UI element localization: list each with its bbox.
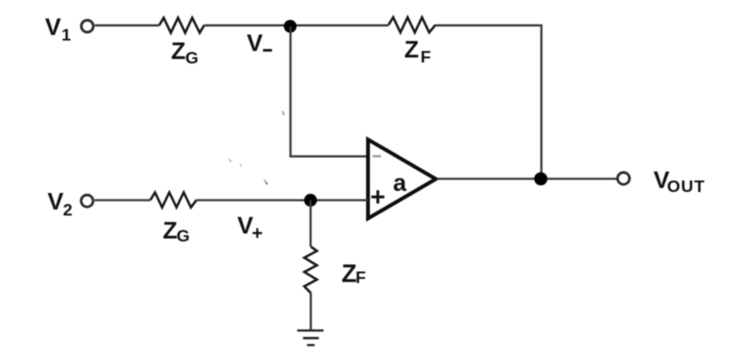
svg-text:+: +: [370, 182, 385, 212]
svg-text:F: F: [421, 48, 431, 67]
svg-text:Z: Z: [171, 38, 186, 65]
svg-text:Z: Z: [163, 218, 178, 245]
wire op-amp output to terminal: [437, 178, 617, 180]
label ZG (top): [171, 38, 199, 68]
node V+ label: [237, 213, 263, 245]
terminal V2: [81, 195, 93, 207]
wire ZF to corner and down to output node: [436, 25, 542, 178]
svg-text:G: G: [177, 227, 190, 246]
wire to inverting input: [289, 155, 368, 157]
svg-text:+: +: [252, 223, 263, 244]
terminal VOUT: [618, 172, 630, 184]
output node junction dot: [534, 172, 547, 185]
node V- junction dot: [284, 20, 297, 33]
node V- label: [247, 30, 272, 57]
svg-text:Z: Z: [404, 37, 419, 64]
terminal V1: [81, 20, 93, 32]
svg-text:2: 2: [63, 201, 72, 220]
label ZF (shunt): [342, 260, 366, 288]
label ZF (feedback): [404, 37, 431, 67]
op-amp U1: [368, 140, 436, 219]
svg-text:V: V: [247, 30, 263, 57]
svg-text:G: G: [185, 49, 198, 68]
wire V1 to ZG: [95, 24, 159, 26]
svg-text:a: a: [393, 170, 407, 197]
resistor ZF (shunt, vertical): [304, 247, 317, 293]
wire node V- down: [289, 26, 291, 156]
wire ZG to node V+ and noninverting input: [197, 199, 369, 201]
svg-text:V: V: [45, 14, 61, 41]
resistor ZG (top): [159, 18, 204, 33]
svg-text:OUT: OUT: [667, 177, 705, 196]
svg-text:F: F: [356, 268, 366, 287]
label ZG (bottom): [163, 218, 190, 246]
wire node V+ down to ZF: [310, 200, 312, 246]
node V2 label: [48, 188, 73, 219]
svg-text:V: V: [48, 188, 64, 215]
wire ZF to ground: [310, 293, 312, 330]
wire ZG to node V-: [204, 24, 388, 26]
svg-text:Z: Z: [342, 260, 357, 288]
svg-text:1: 1: [62, 26, 71, 45]
resistor ZF (feedback): [389, 17, 436, 32]
wire V2 to ZG: [95, 199, 151, 201]
node V1 label: [45, 14, 71, 45]
ground: [297, 329, 323, 346]
resistor ZG (bottom): [150, 192, 196, 207]
node VOUT label: [654, 167, 706, 196]
node V+ junction dot: [304, 194, 317, 207]
